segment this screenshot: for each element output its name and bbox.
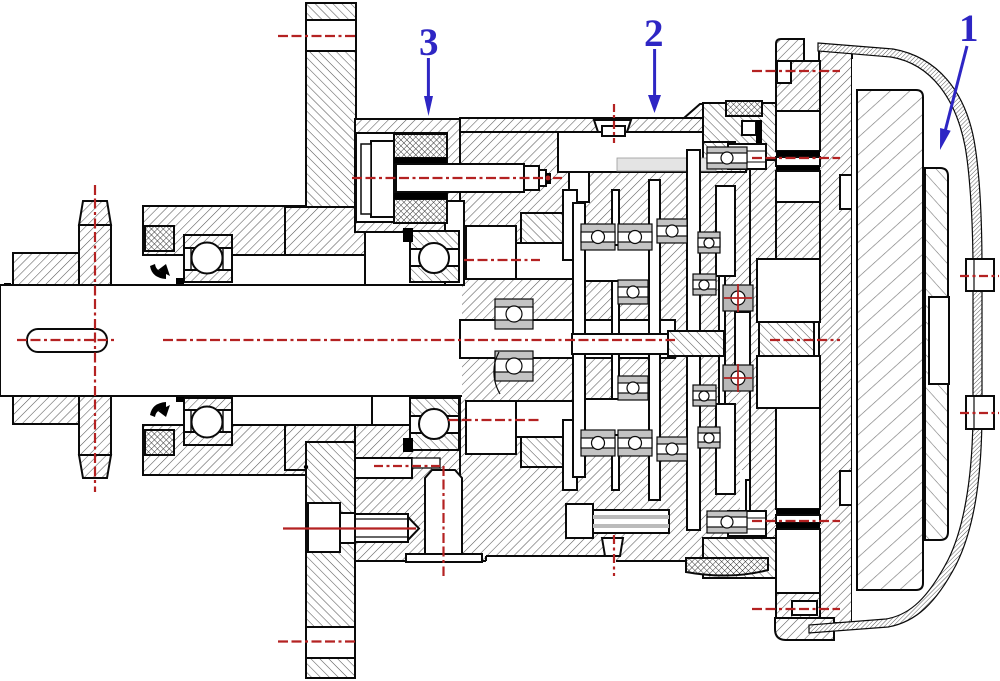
case bearing bottom (410, 398, 459, 450)
flange mid block (776, 202, 820, 259)
keyway slot redraw (27, 329, 107, 352)
snap ring top (4, 283, 11, 290)
bolt bottom axis (283, 527, 416, 529)
retainer squares (176, 278, 184, 286)
block bottom right (716, 404, 735, 494)
gap white right of case (740, 470, 757, 558)
web small bottom (563, 420, 577, 490)
terminal stub 2 (966, 396, 994, 429)
tooth phantom curve (494, 352, 500, 394)
top screw axis (613, 104, 615, 143)
flange axis (94, 185, 96, 492)
planet body top (585, 245, 649, 281)
bolt3 tip dot (546, 176, 551, 181)
hub arm bottom (13, 387, 79, 424)
planet bearing P10 (693, 385, 716, 406)
ring band gray (617, 158, 716, 171)
cup bolt axis top (752, 70, 840, 72)
bolt bottom shank (340, 513, 355, 543)
shaft left stub (1, 285, 79, 396)
gear web 0 (573, 203, 585, 477)
magnet notch (929, 297, 949, 384)
spline axis top (752, 157, 840, 159)
bolt3 shank (396, 164, 524, 192)
top column cap (306, 3, 356, 20)
body notch top right (445, 201, 464, 285)
label 1 (940, 7, 979, 150)
planet bearing P3b (698, 232, 720, 253)
planet bearing P8b (698, 427, 720, 448)
needle bearing cross bottom (723, 364, 753, 392)
body bottom (285, 425, 365, 470)
main axis (17, 339, 116, 341)
small bearings middle (581, 147, 753, 533)
planet bearing P8 (657, 437, 687, 461)
case lower-left slot (355, 458, 412, 478)
bore white band top (143, 255, 460, 285)
svg-text:3: 3 (419, 21, 439, 64)
hub top block (143, 206, 306, 255)
terminal axis 1 (960, 275, 999, 277)
web small top (563, 190, 577, 260)
flange bolt notch top (777, 61, 791, 83)
cup bolt axis bottom (752, 608, 840, 610)
sun bearing bottom (495, 351, 533, 381)
planet bearing P3 (657, 219, 687, 243)
top column bolt band (306, 20, 356, 51)
carrier hub (735, 312, 773, 368)
spline stub top (728, 144, 766, 169)
bolt3 tip collar (524, 166, 539, 190)
gear web 4 (719, 228, 725, 451)
magnet strip (925, 168, 948, 540)
planet bearing P4 (618, 280, 648, 304)
cover bottom block (703, 538, 777, 578)
cover plate (750, 128, 777, 558)
label 2 (644, 12, 664, 113)
dome shell (809, 43, 982, 633)
bolt3 spring bottom (394, 199, 447, 223)
planet bearing P5 (693, 274, 716, 295)
seal bottom (145, 430, 174, 455)
planet axis top (464, 259, 540, 261)
hub arm top (13, 253, 79, 286)
boss base plate (406, 554, 482, 562)
node dot (304, 465, 308, 469)
case bottom step (486, 556, 616, 562)
ring band right hatch (703, 132, 746, 172)
svg-text:1: 1 (959, 7, 979, 50)
boss plug (425, 470, 462, 554)
gear web 1 (612, 190, 619, 490)
boss axis (442, 466, 444, 576)
rotor block (857, 90, 923, 590)
lower gear band (466, 401, 516, 454)
flange window top (757, 259, 820, 322)
spline axis bottom (752, 520, 840, 522)
cup slot right bottom (840, 471, 852, 505)
shaft white band (1, 285, 462, 396)
upper gear band (466, 226, 516, 279)
flange hub (759, 322, 814, 356)
gear web 2 (649, 180, 660, 500)
terminal axis 2 (960, 412, 999, 414)
slot axis (374, 465, 443, 467)
body top (285, 207, 365, 255)
bearing race lines (190, 248, 192, 270)
white column (569, 172, 589, 202)
top screw (594, 120, 631, 132)
wheel flange column (79, 225, 111, 288)
planet bearing P2 (618, 224, 652, 250)
cup wall (819, 50, 852, 623)
flange upper block (776, 61, 820, 111)
bolt bottom head (308, 503, 340, 552)
upper gear hub hatch (521, 213, 563, 243)
sun gear end (668, 331, 724, 356)
cup bottom cap (775, 618, 834, 640)
cover crosshatch wedge bottom (686, 558, 768, 576)
gap cup rotor (852, 59, 857, 623)
flange window bottom (757, 356, 820, 408)
lower gear hub hatch (521, 437, 563, 467)
output bearing bottom (707, 511, 747, 533)
cover lower white pocket (746, 480, 776, 538)
terminal stub 1 (966, 259, 994, 291)
cover crosshatch wedge top (726, 101, 762, 116)
flange slot bands top (776, 151, 820, 157)
plate around bolt (355, 119, 460, 232)
cover top block (703, 103, 777, 160)
flange white pocket 2 (776, 171, 820, 202)
needle bearing cross top (723, 284, 753, 312)
planet bearing P7 (618, 430, 652, 456)
top column hole axis (278, 35, 356, 37)
seal lip bottom (150, 402, 166, 417)
planet bearing P9 (618, 376, 648, 400)
flange top cap (776, 39, 804, 61)
stud axis (613, 535, 615, 576)
sun shaft (460, 320, 675, 358)
case mid backdrop (460, 132, 755, 561)
stud shank (593, 510, 669, 533)
label 3 (419, 21, 439, 116)
bolt3 head (371, 141, 394, 217)
block top right (716, 186, 735, 276)
bolt3 spring top (394, 134, 447, 158)
seal top (145, 226, 174, 251)
planet body bottom (585, 399, 649, 435)
case top wall (460, 118, 755, 132)
bolt3 cavity (356, 133, 447, 222)
bottom column (306, 442, 355, 678)
keyway slot (27, 329, 107, 352)
case bearing top (410, 231, 459, 282)
cup slot right top (840, 175, 852, 209)
flange lower white (776, 408, 820, 509)
bolt3 washer (361, 144, 371, 214)
sun bearing top (495, 299, 533, 329)
rim wedge (684, 103, 732, 118)
cover notch (742, 121, 756, 135)
planet axis bottom (448, 419, 540, 421)
output bearing top (707, 147, 747, 169)
bearing B2 bottom (184, 398, 232, 445)
gear web 3 (687, 150, 700, 530)
planet bearing P1 (581, 224, 615, 250)
bearing B1 top (184, 235, 232, 282)
bottom column hole axis (278, 640, 356, 642)
top column (306, 51, 356, 212)
bottom screw (602, 538, 623, 556)
seal lip top (150, 264, 166, 279)
flange bottom block (776, 593, 820, 625)
snap ring bottom (4, 388, 11, 395)
ring band (558, 132, 746, 172)
flange slot bands bottom (776, 509, 820, 515)
cup bolt notch bottom (792, 601, 817, 615)
hub bottom block (143, 425, 306, 475)
bolt3 axis (352, 177, 562, 179)
sun shaft band (572, 334, 724, 354)
svg-text:2: 2 (644, 12, 664, 55)
case bottom wall (355, 425, 460, 561)
planet bearing P6 (581, 430, 615, 456)
flange white pocket top (776, 111, 820, 151)
spline stub bottom (728, 511, 766, 536)
stud head (566, 504, 593, 538)
bore white band bottom (143, 396, 460, 425)
